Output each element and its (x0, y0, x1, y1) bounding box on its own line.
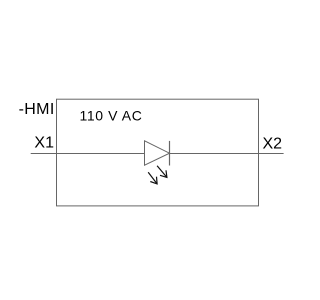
svg-text:110 V AC: 110 V AC (80, 108, 143, 124)
svg-text:X2: X2 (263, 135, 283, 152)
LED D1: light emission arrow 2 (148, 172, 157, 184)
wire: LED cathode to X2 terminal (170, 153, 284, 155)
LED D1: cathode bar (169, 141, 171, 166)
LED D1: diode triangle (anode) (145, 141, 170, 165)
module outline box (57, 99, 259, 206)
wire: X1 terminal to LED anode (31, 153, 145, 155)
svg-text:X1: X1 (34, 135, 54, 152)
LED D1: light emission arrow 1 (157, 166, 167, 178)
svg-text:-HMI: -HMI (19, 101, 55, 118)
